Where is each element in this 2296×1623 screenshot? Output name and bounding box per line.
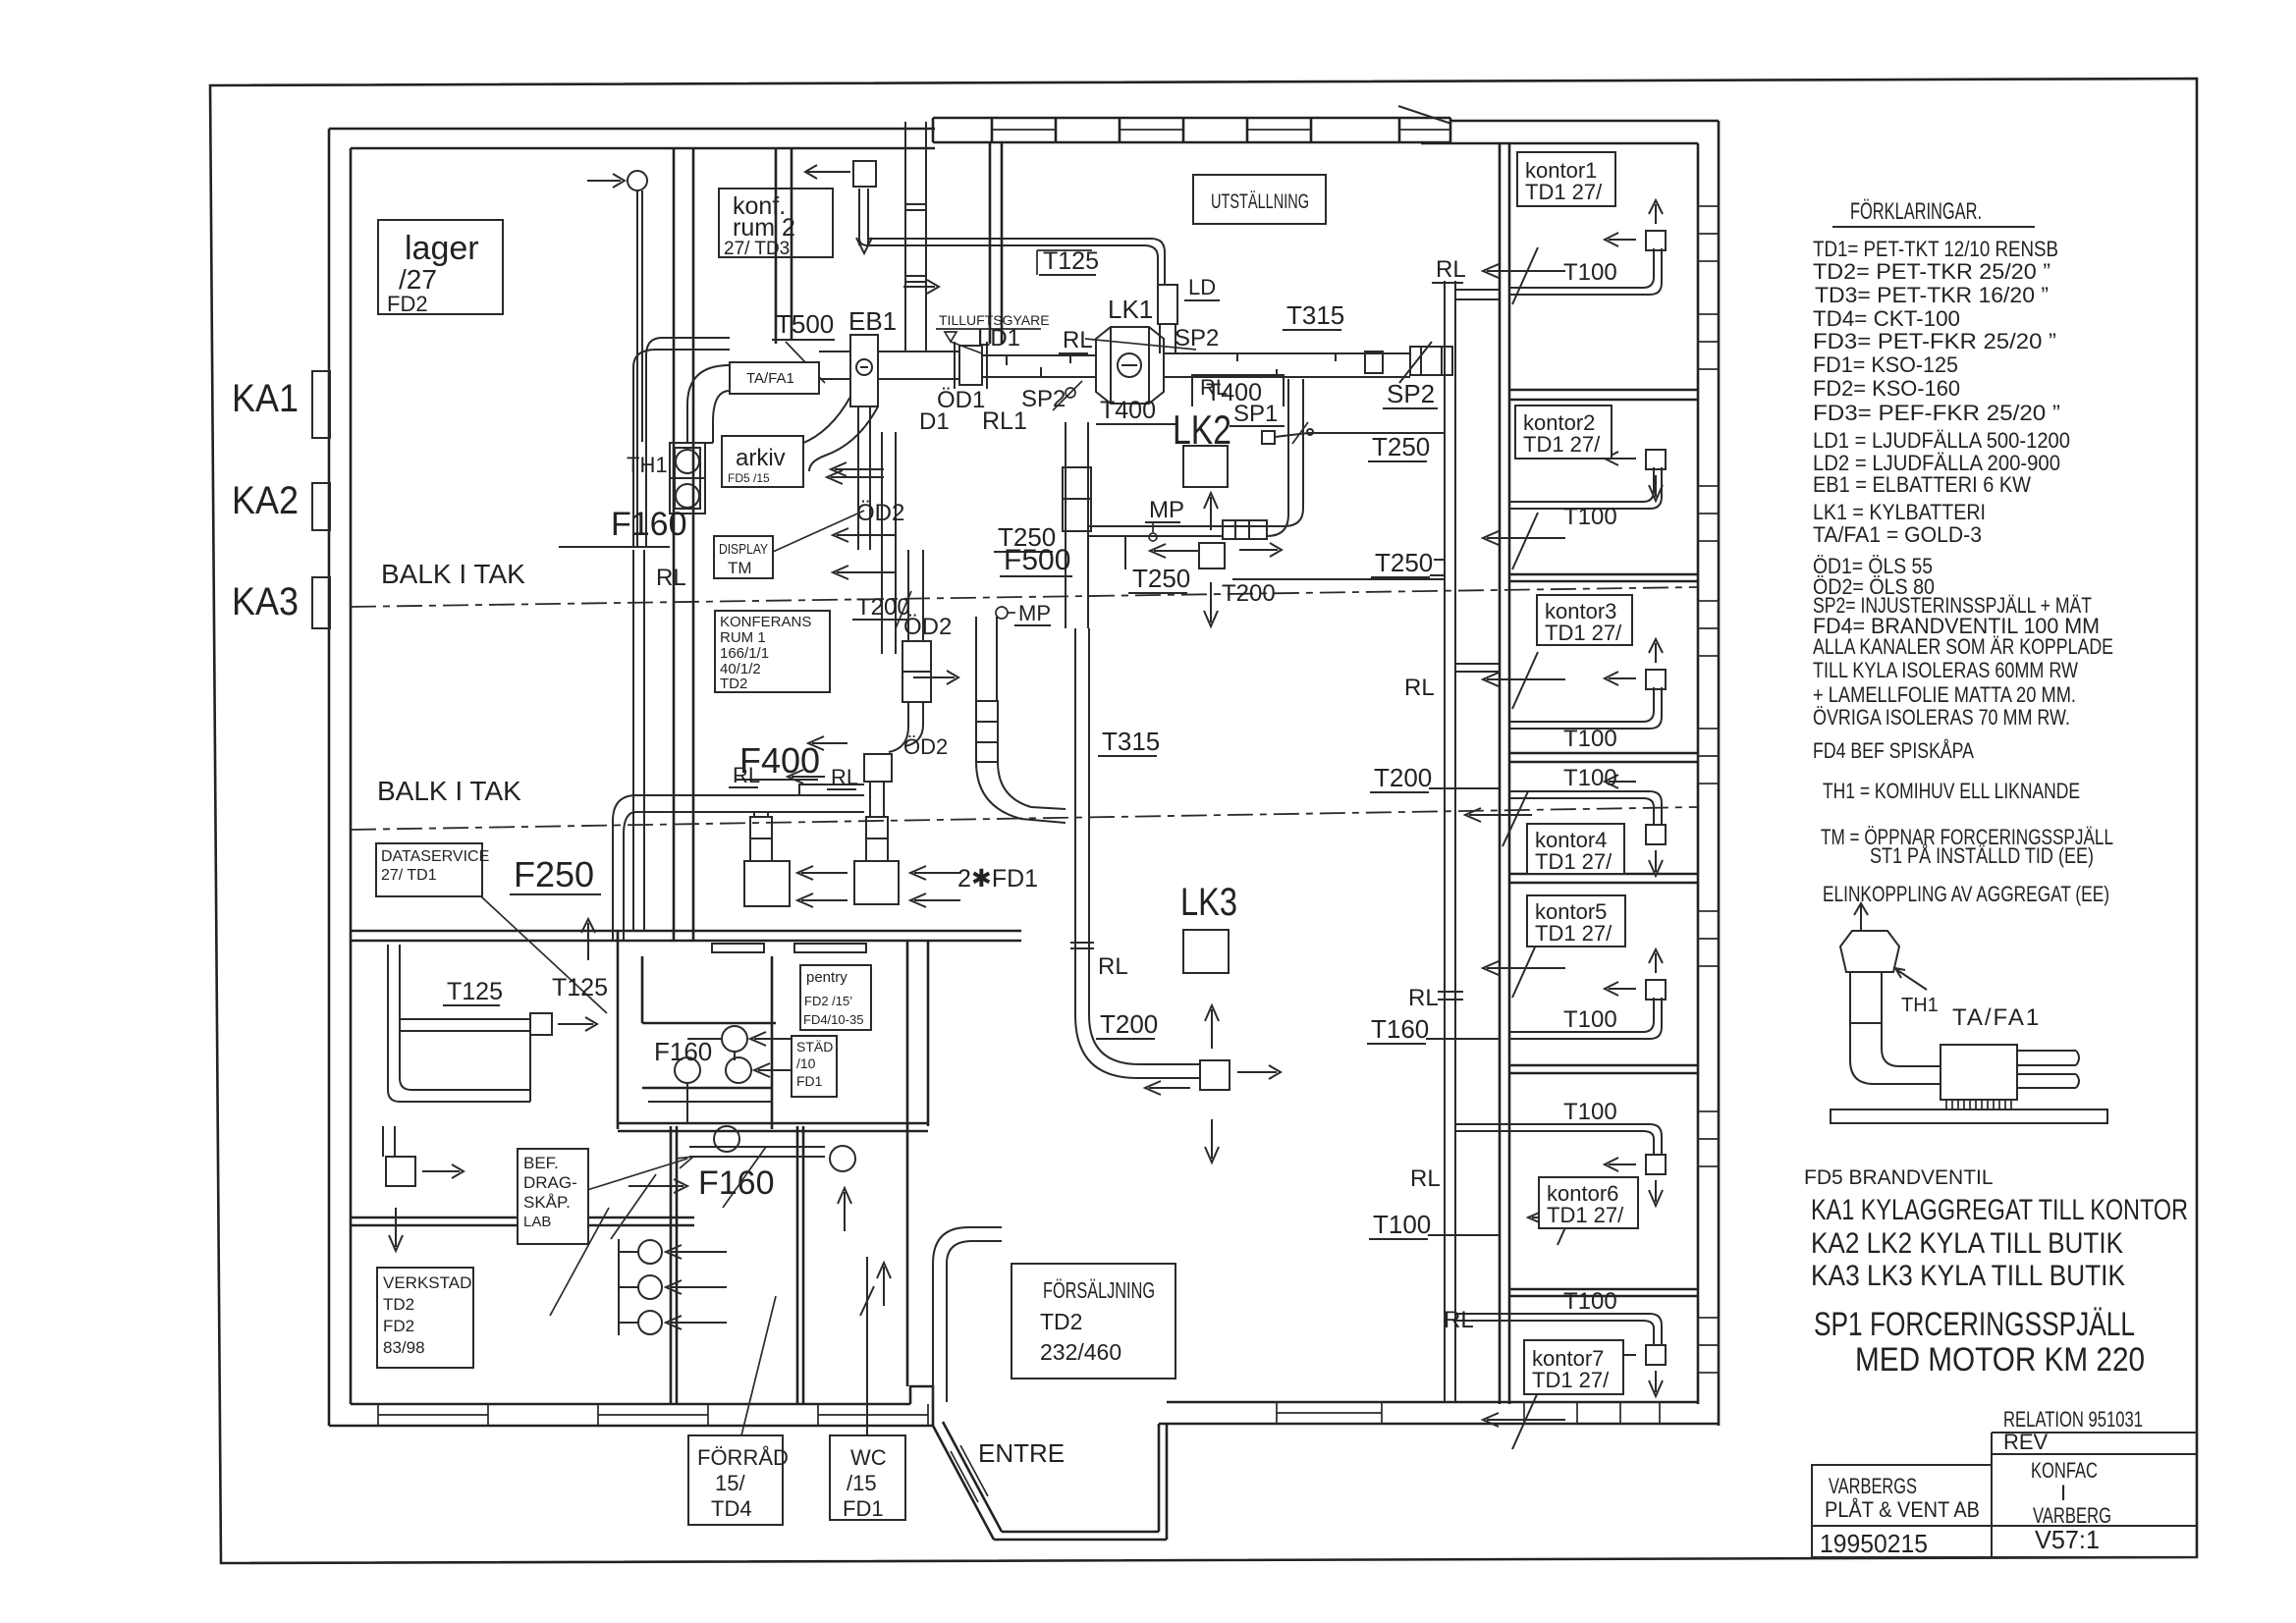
svg-text:T100: T100 bbox=[1563, 504, 1617, 530]
F400 duct elbow down to lab bbox=[613, 795, 636, 941]
corridor stub k3 bbox=[1430, 560, 1500, 672]
svg-text:T125: T125 bbox=[552, 974, 608, 1001]
corridor wall (double) bbox=[1500, 143, 1509, 1404]
F160 label big bbox=[559, 506, 687, 547]
LK3 unit square bbox=[1183, 930, 1229, 973]
LK2 branch riser from main duct bbox=[1267, 379, 1303, 536]
room label WC bbox=[830, 1435, 905, 1521]
TH1 label pointer bbox=[1895, 968, 1927, 990]
svg-text:KA1 KYLAGGREGAT TILL KONTOR: KA1 KYLAGGREGAT TILL KONTOR bbox=[1811, 1194, 2188, 1226]
RL unit right with fins bbox=[976, 617, 998, 762]
svg-text:FD1= KSO-125: FD1= KSO-125 bbox=[1813, 352, 1958, 377]
svg-text:ÖD2: ÖD2 bbox=[903, 734, 948, 759]
svg-text:RL: RL bbox=[831, 765, 858, 789]
main duct LK1 to right wall bbox=[1164, 353, 1410, 377]
arrows into pentry circles bbox=[750, 1032, 805, 1046]
svg-text:T200: T200 bbox=[856, 594, 910, 621]
dragskap leader line bbox=[587, 1157, 693, 1190]
kontor2 duct bbox=[1509, 450, 1666, 509]
svg-text:FD3= PET-FKR 25/20 ”: FD3= PET-FKR 25/20 ” bbox=[1813, 329, 2056, 353]
svg-text:T100: T100 bbox=[1563, 726, 1617, 752]
svg-text:TD1= PET-TKT 12/10 RENSB: TD1= PET-TKT 12/10 RENSB bbox=[1813, 237, 2058, 261]
svg-text:MED MOTOR KM 220: MED MOTOR KM 220 bbox=[1855, 1341, 2145, 1379]
svg-text:WC: WC bbox=[850, 1445, 887, 1470]
curved duct EB1 down to arkiv level bbox=[786, 397, 878, 471]
T125 room duct to outlet bbox=[400, 945, 530, 1031]
SP2 label far right bbox=[1383, 379, 1438, 408]
svg-text:MP: MP bbox=[1149, 497, 1184, 523]
lab bench duct with circle bbox=[689, 1126, 855, 1171]
svg-text:I: I bbox=[2060, 1481, 2066, 1505]
arrows into lab circles bbox=[666, 1245, 727, 1259]
svg-text:T100: T100 bbox=[1373, 1210, 1431, 1239]
top window band bbox=[933, 118, 1450, 142]
svg-text:FÖRSÄLJNING: FÖRSÄLJNING bbox=[1043, 1277, 1155, 1303]
svg-text:TD1 27/: TD1 27/ bbox=[1525, 180, 1603, 204]
svg-text:232/460: 232/460 bbox=[1040, 1339, 1121, 1365]
T315 label bbox=[1098, 727, 1160, 756]
svg-text:TD1 27/: TD1 27/ bbox=[1523, 432, 1601, 457]
room label kontor7 bbox=[1524, 1340, 1623, 1394]
svg-text:VERKSTAD: VERKSTAD bbox=[383, 1273, 471, 1292]
DISPLAY TM box bbox=[714, 536, 773, 578]
svg-text:T250: T250 bbox=[1375, 548, 1433, 577]
building left wall (double) bbox=[329, 129, 351, 1426]
svg-text:T100: T100 bbox=[1563, 1288, 1617, 1315]
TH1 up arrow bbox=[1854, 903, 1868, 931]
F500 label bbox=[1000, 544, 1072, 576]
silencer on F500 riser bbox=[1063, 467, 1091, 531]
kontor4 duct bbox=[1509, 775, 1666, 876]
kontor7 arrow crossing bbox=[1483, 1392, 1565, 1449]
bottom window openings right part bbox=[1277, 1402, 1660, 1424]
shaft wall konf rum 2 right (double) bbox=[776, 148, 792, 344]
T125 outlet arrow bbox=[558, 1017, 597, 1031]
T315 riser elbow to outlet bbox=[1075, 1015, 1200, 1078]
svg-text:rum 2: rum 2 bbox=[733, 214, 795, 242]
T125 duct run bbox=[859, 239, 1165, 285]
SP1 damper square bbox=[1262, 422, 1313, 444]
svg-text:ELINKOPPLING AV AGGREGAT (EE): ELINKOPPLING AV AGGREGAT (EE) bbox=[1823, 882, 2109, 906]
entrance vestibule bottom wall bbox=[994, 1532, 1167, 1540]
svg-text:LD1: LD1 bbox=[977, 325, 1020, 352]
F400 arrow bbox=[808, 736, 847, 750]
MP label with point bbox=[996, 601, 1051, 625]
kontor3 duct bbox=[1509, 639, 1666, 729]
T200 down arrow bbox=[1204, 582, 1218, 626]
room label konf rum 2 bbox=[719, 189, 833, 259]
lab area bottom wall (double) bbox=[618, 1123, 928, 1131]
svg-text:SP2: SP2 bbox=[1387, 379, 1435, 408]
LK2 branch arrows bbox=[1150, 544, 1198, 558]
OD2 riser pair 1 bbox=[858, 406, 870, 550]
kontor partition 5-6 bbox=[1509, 1065, 1698, 1073]
curve RL unit to F500 riser bbox=[976, 762, 1066, 823]
svg-text:FD4/10-35: FD4/10-35 bbox=[803, 1012, 863, 1027]
svg-text:TA/FA1 = GOLD-3: TA/FA1 = GOLD-3 bbox=[1813, 522, 1982, 547]
svg-text:LK3: LK3 bbox=[1180, 881, 1237, 924]
pentry duct lines bbox=[648, 1039, 772, 1123]
svg-text:RL: RL bbox=[1408, 985, 1439, 1011]
slash marks lab bbox=[550, 1147, 766, 1316]
svg-text:RL: RL bbox=[1098, 953, 1128, 980]
verkstad supply duct bbox=[383, 1126, 395, 1157]
T200 label corridor bbox=[1370, 763, 1500, 792]
svg-text:TILL KYLA ISOLERAS 60MM RW: TILL KYLA ISOLERAS 60MM RW bbox=[1813, 658, 2078, 682]
TA/FA1 unit box bbox=[1941, 1045, 2017, 1100]
svg-text:F160: F160 bbox=[654, 1037, 712, 1066]
up arrow at LK2 bbox=[1204, 493, 1218, 530]
svg-text:TH1 = KOMIHUV ELL LIKNANDE: TH1 = KOMIHUV ELL LIKNANDE bbox=[1823, 779, 2080, 803]
svg-text:LK1 = KYLBATTERI: LK1 = KYLBATTERI bbox=[1813, 500, 1986, 524]
TH1 cowl unit bbox=[670, 443, 705, 514]
entrance vestibule diagonal wall with door bbox=[933, 1422, 1002, 1540]
T315 label top right duct bbox=[1283, 300, 1344, 330]
svg-text:FD5 /15: FD5 /15 bbox=[728, 471, 770, 485]
room label FORSALJNING bbox=[1011, 1264, 1175, 1379]
title block: date and number row bbox=[1812, 1525, 2197, 1558]
building right wall (double) bbox=[1698, 121, 1719, 1426]
svg-text:KA1: KA1 bbox=[232, 377, 299, 420]
kontor partition 4-5 bbox=[1509, 874, 1698, 883]
svg-text:SKÅP.: SKÅP. bbox=[523, 1193, 571, 1212]
T250 duct to corridor bbox=[1308, 432, 1445, 434]
OD2 spjall square bbox=[864, 754, 892, 782]
LK2 unit square bbox=[1183, 446, 1228, 487]
svg-text:TD4: TD4 bbox=[711, 1496, 752, 1521]
kontor7 duct bbox=[1455, 1314, 1666, 1396]
svg-text:F160: F160 bbox=[698, 1164, 775, 1202]
display arrows left bbox=[833, 528, 896, 542]
svg-text:T500: T500 bbox=[776, 309, 834, 339]
room label FORRAD bbox=[688, 1435, 789, 1525]
T125 outlet square bbox=[530, 1013, 552, 1035]
ozd slash at duct bbox=[1085, 339, 1196, 350]
RL label top bbox=[1432, 256, 1466, 283]
svg-text:SP1 FORCERINGSSPJÄLL: SP1 FORCERINGSSPJÄLL bbox=[1814, 1306, 2135, 1343]
forrad leader line bbox=[741, 1296, 776, 1435]
supply outlet konf rum 2 bbox=[805, 161, 876, 253]
LK2 branch horizontal duct bbox=[1088, 526, 1284, 536]
svg-text:166/1/1: 166/1/1 bbox=[720, 645, 769, 662]
room label kontor6 bbox=[1539, 1177, 1638, 1228]
svg-text:T100: T100 bbox=[1563, 259, 1617, 286]
kontor3 arrow crossing bbox=[1483, 652, 1565, 709]
svg-text:D1: D1 bbox=[919, 408, 950, 435]
konferans outlet right bbox=[854, 861, 899, 904]
up arrow near F250 bbox=[581, 919, 595, 960]
kontor partition 3-4 bbox=[1509, 753, 1698, 762]
sheet border bbox=[210, 79, 2197, 1563]
svg-text:15/: 15/ bbox=[715, 1471, 745, 1495]
svg-text:83/98: 83/98 bbox=[383, 1338, 425, 1357]
svg-text:27/ TD1: 27/ TD1 bbox=[381, 867, 437, 884]
TILLUFTSGYARE label bbox=[936, 312, 1050, 353]
unit comb fins bbox=[1946, 1100, 2011, 1109]
building top wall right section (double) bbox=[1421, 121, 1719, 143]
F500 exhaust riser bbox=[1066, 422, 1088, 628]
verkstad down arrow bbox=[389, 1208, 403, 1251]
svg-text:VARBERGS: VARBERGS bbox=[1829, 1474, 1917, 1498]
fresh air intake riser bbox=[905, 122, 926, 352]
wc riser line bbox=[860, 1257, 874, 1435]
svg-text:TD1 27/: TD1 27/ bbox=[1535, 849, 1613, 874]
svg-text:T200: T200 bbox=[1100, 1009, 1158, 1039]
beam dash-dot line 2 bbox=[351, 807, 1698, 830]
svg-text:T100: T100 bbox=[1563, 765, 1617, 791]
svg-text:RL: RL bbox=[1063, 327, 1093, 353]
kontor4 arrow crossing bbox=[1465, 791, 1532, 846]
lab interior vertical wall left bbox=[617, 931, 620, 1129]
svg-text:TD2: TD2 bbox=[383, 1295, 414, 1314]
svg-text:T250: T250 bbox=[1372, 432, 1430, 461]
room label KONFERANS RUM 1 bbox=[715, 611, 830, 692]
kontor2 arrow crossing bbox=[1483, 513, 1565, 569]
kontor partition 6-7 bbox=[1509, 1289, 1698, 1296]
svg-text:ALLA KANALER SOM ÄR KOPPLADE: ALLA KANALER SOM ÄR KOPPLADE bbox=[1813, 634, 2113, 659]
room label pentry bbox=[800, 965, 871, 1030]
room label kontor3 bbox=[1537, 595, 1632, 645]
kontor partition 1-2 bbox=[1509, 390, 1698, 400]
title block: REV row bbox=[1992, 1430, 2197, 1557]
svg-text:T100: T100 bbox=[1563, 1099, 1617, 1125]
room label kontor2 bbox=[1515, 406, 1612, 459]
svg-text:FD1: FD1 bbox=[843, 1496, 884, 1521]
room label STAD bbox=[792, 1036, 837, 1097]
title block: RELATION row bbox=[1992, 1407, 2197, 1433]
main supply duct TA/FA1 to LK1 bbox=[819, 352, 1096, 379]
svg-text:RL: RL bbox=[1444, 1307, 1474, 1333]
svg-text:BALK I TAK: BALK I TAK bbox=[381, 559, 525, 589]
svg-text:T125: T125 bbox=[447, 978, 503, 1005]
svg-text:RL: RL bbox=[656, 565, 686, 591]
svg-text:EB1: EB1 bbox=[848, 306, 897, 336]
svg-text:TD2= PET-TKR 25/20 ”: TD2= PET-TKR 25/20 ” bbox=[1813, 259, 2050, 284]
T200 label at riser bbox=[852, 591, 911, 628]
svg-text:TA/FA1: TA/FA1 bbox=[1952, 1004, 2041, 1031]
forrad left wall (double) bbox=[671, 1126, 677, 1404]
wall opening bars on lab wall bbox=[712, 944, 764, 952]
svg-text:T125: T125 bbox=[1043, 247, 1099, 275]
svg-text:T100: T100 bbox=[1563, 1006, 1617, 1033]
svg-text:/10: /10 bbox=[796, 1055, 816, 1071]
svg-text:T315: T315 bbox=[1286, 300, 1344, 330]
svg-text:FD2 /15’: FD2 /15’ bbox=[804, 994, 852, 1008]
svg-text:LAB: LAB bbox=[523, 1214, 551, 1230]
legend items bbox=[1813, 237, 2113, 906]
svg-text:pentry: pentry bbox=[806, 969, 847, 986]
left wall pilaster KA3 bbox=[312, 577, 330, 628]
svg-text:FD3= PEF-FKR 25/20 ”: FD3= PEF-FKR 25/20 ” bbox=[1813, 401, 2060, 425]
svg-text:UTSTÄLLNING: UTSTÄLLNING bbox=[1211, 190, 1309, 213]
LK1 cooling unit bbox=[1096, 327, 1164, 404]
svg-text:FD5 BRANDVENTIL: FD5 BRANDVENTIL bbox=[1804, 1166, 1994, 1189]
svg-text:/27: /27 bbox=[399, 264, 437, 295]
svg-text:TM: TM bbox=[728, 559, 752, 577]
kontor5 duct bbox=[1509, 949, 1666, 1039]
room label VERKSTAD bbox=[377, 1268, 473, 1368]
svg-text:F160: F160 bbox=[611, 506, 687, 543]
arrows into outlets bbox=[797, 866, 847, 880]
shaft wall right of intake (double) bbox=[990, 143, 1002, 344]
T160 label corridor bbox=[1367, 1014, 1500, 1044]
room label BEF DRAGSKAP LAB bbox=[518, 1149, 588, 1244]
svg-text:RL: RL bbox=[1436, 256, 1466, 283]
T125 label 1 bbox=[443, 978, 503, 1005]
svg-text:FÖRRÅD: FÖRRÅD bbox=[697, 1445, 789, 1470]
room label DATASERVICE bbox=[376, 843, 489, 896]
svg-text:T315: T315 bbox=[1102, 727, 1160, 756]
verkstad top wall bbox=[351, 1217, 694, 1225]
interior wall lager/konferans (double) bbox=[674, 148, 693, 941]
konferans outlet left bbox=[744, 861, 790, 906]
beam dash-dot line 1 bbox=[351, 587, 1698, 607]
arkiv room box bbox=[722, 436, 803, 487]
svg-text:/15: /15 bbox=[847, 1471, 877, 1495]
T500 label bbox=[772, 309, 835, 383]
LD silencer on riser bbox=[1158, 285, 1177, 324]
svg-text:TD3= PET-TKR 16/20 ”: TD3= PET-TKR 16/20 ” bbox=[1815, 283, 2049, 307]
svg-text:T250: T250 bbox=[1132, 564, 1190, 593]
room label lager bbox=[378, 220, 503, 316]
legend heading FORKLARINGAR bbox=[1832, 198, 2035, 227]
svg-text:27/ TD3: 27/ TD3 bbox=[724, 239, 790, 259]
T100 label corridor k6 bbox=[1369, 1210, 1500, 1239]
building outer wall top-left (double) bbox=[329, 129, 935, 148]
svg-text:FD4 BEF SPISKÅPA: FD4 BEF SPISKÅPA bbox=[1813, 738, 1974, 763]
SP2 damper right bbox=[1365, 352, 1383, 373]
svg-text:FD1: FD1 bbox=[796, 1073, 823, 1089]
svg-text:KONFAC: KONFAC bbox=[2031, 1458, 2098, 1483]
svg-text:BEF.: BEF. bbox=[523, 1154, 559, 1172]
svg-text:PLÅT & VENT AB: PLÅT & VENT AB bbox=[1825, 1497, 1980, 1522]
left wall pilaster KA2 bbox=[312, 483, 330, 530]
svg-text:TD4= CKT-100: TD4= CKT-100 bbox=[1813, 306, 1960, 331]
svg-text:DATASERVICE: DATASERVICE bbox=[381, 848, 489, 865]
entrance vestibule right wall bbox=[1159, 1424, 1167, 1540]
duct stub to kontor1 bbox=[1455, 290, 1500, 299]
kontor1 arrow crossing bbox=[1483, 247, 1565, 304]
svg-text:KA3 LK3 KYLA TILL BUTIK: KA3 LK3 KYLA TILL BUTIK bbox=[1811, 1260, 2125, 1292]
kontor5 arrow crossing bbox=[1483, 941, 1565, 998]
svg-text:RL: RL bbox=[1410, 1165, 1441, 1192]
TH1 stack duct bbox=[1850, 972, 1882, 1023]
pentry exhaust circles bbox=[675, 1026, 751, 1083]
T250 label on riser bbox=[994, 522, 1056, 552]
room label kontor5 bbox=[1527, 895, 1625, 947]
svg-text:T200: T200 bbox=[1374, 763, 1432, 792]
svg-text:F500: F500 bbox=[1004, 544, 1070, 576]
damper on LK2 branch bbox=[1223, 520, 1267, 539]
svg-text:RELATION 951031: RELATION 951031 bbox=[2003, 1407, 2143, 1432]
svg-text:LD1 = LJUDFÄLLA 500-1200: LD1 = LJUDFÄLLA 500-1200 bbox=[1813, 428, 2070, 453]
elbow duct to unit bbox=[1850, 1023, 1941, 1084]
svg-text:TH1: TH1 bbox=[1901, 995, 1939, 1016]
konferans damper right bbox=[866, 782, 888, 861]
SP1 label bbox=[1230, 401, 1285, 427]
corridor duct left verticals bbox=[933, 1264, 947, 1402]
RL label at F400 right bbox=[788, 765, 858, 789]
OD2 riser pair 2 bbox=[882, 432, 896, 654]
svg-text:TD1 27/: TD1 27/ bbox=[1535, 921, 1613, 946]
svg-text:RL1: RL1 bbox=[982, 407, 1027, 435]
lab area top wall (double) bbox=[351, 931, 1021, 941]
left wall pilaster KA1 bbox=[312, 371, 330, 438]
base plate bbox=[1831, 1109, 2107, 1123]
intake arrow bbox=[903, 280, 939, 294]
svg-text:KA2 LK2 KYLA TILL BUTIK: KA2 LK2 KYLA TILL BUTIK bbox=[1811, 1227, 2123, 1260]
T125 duct in dataservice room bbox=[388, 945, 530, 1102]
RL label at F400 left bbox=[729, 763, 760, 787]
kontor6 arrow crossing bbox=[1528, 1188, 1611, 1245]
verkstad outlet square bbox=[386, 1157, 415, 1186]
transfer arrow right bbox=[913, 671, 958, 684]
svg-text:SP2: SP2 bbox=[1021, 386, 1066, 412]
T250 label corridor 1 bbox=[1368, 432, 1430, 461]
svg-text:RL: RL bbox=[1404, 675, 1435, 701]
svg-text:FÖRKLARINGAR.: FÖRKLARINGAR. bbox=[1850, 198, 1982, 225]
roof slash top right bbox=[1398, 106, 1451, 124]
kitchen exhaust elbow lower left bbox=[933, 1227, 1002, 1264]
svg-text:T160: T160 bbox=[1371, 1014, 1429, 1044]
F250 label bbox=[510, 854, 601, 894]
lab circles column bbox=[619, 1239, 662, 1335]
title block: KONFAC I VARBERG cell bbox=[2031, 1458, 2111, 1528]
T125 label bbox=[1037, 247, 1099, 275]
svg-text:FD2= KSO-160: FD2= KSO-160 bbox=[1813, 376, 1960, 401]
duct elbow from lager wall to TA/FA1 bbox=[633, 338, 730, 546]
svg-text:ÖD2: ÖD2 bbox=[856, 500, 904, 526]
F160 riser lower run bbox=[633, 550, 644, 931]
outlet pipe lower bbox=[2017, 1074, 2079, 1088]
konferans damper left bbox=[750, 812, 772, 861]
bottom wall notch bbox=[910, 1386, 933, 1426]
T250 label horizontal duct bbox=[1128, 564, 1190, 593]
svg-text:TD2: TD2 bbox=[1040, 1309, 1082, 1334]
outlet pipe upper bbox=[2017, 1051, 2079, 1065]
MP label 1 bbox=[1145, 497, 1184, 541]
kontor1 duct bbox=[1509, 200, 1666, 295]
svg-text:V57:1: V57:1 bbox=[2035, 1525, 2100, 1554]
T200 label at elbow bbox=[1096, 1009, 1158, 1039]
T250 branch stub left bbox=[1124, 536, 1126, 569]
svg-text:TA/FA1: TA/FA1 bbox=[746, 370, 794, 387]
svg-text:2✱FD1: 2✱FD1 bbox=[957, 865, 1038, 893]
svg-text:DRAG-: DRAG- bbox=[523, 1173, 577, 1192]
kontor6 duct bbox=[1455, 1124, 1666, 1206]
room label kontor1 bbox=[1517, 152, 1615, 206]
DISPLAY leader line bbox=[773, 511, 864, 552]
svg-text:TD1 27/: TD1 27/ bbox=[1532, 1368, 1610, 1392]
verkstad outlet arrow bbox=[422, 1164, 464, 1178]
room label UTSTALLNING bbox=[1193, 175, 1326, 224]
svg-text:ENTRE: ENTRE bbox=[978, 1438, 1065, 1468]
F160 riser vertical bbox=[637, 190, 642, 546]
svg-text:TD2: TD2 bbox=[720, 676, 747, 692]
corridor right wall of lab area (double) bbox=[907, 941, 928, 1126]
svg-text:MP: MP bbox=[1018, 601, 1051, 625]
svg-text:LK1: LK1 bbox=[1108, 295, 1153, 324]
svg-text:DISPLAY: DISPLAY bbox=[719, 541, 768, 558]
DATASERVICE leader bbox=[469, 886, 607, 1013]
building bottom wall right of entrance (double) bbox=[1159, 1402, 1719, 1424]
F160 lab label bbox=[611, 1164, 775, 1239]
riser tick bbox=[1070, 943, 1094, 948]
svg-text:SP1: SP1 bbox=[1233, 401, 1278, 427]
bottom window band left bbox=[378, 1404, 928, 1426]
forrad/wc dividing wall (double) bbox=[797, 1126, 803, 1404]
svg-text:LD: LD bbox=[1188, 275, 1216, 299]
